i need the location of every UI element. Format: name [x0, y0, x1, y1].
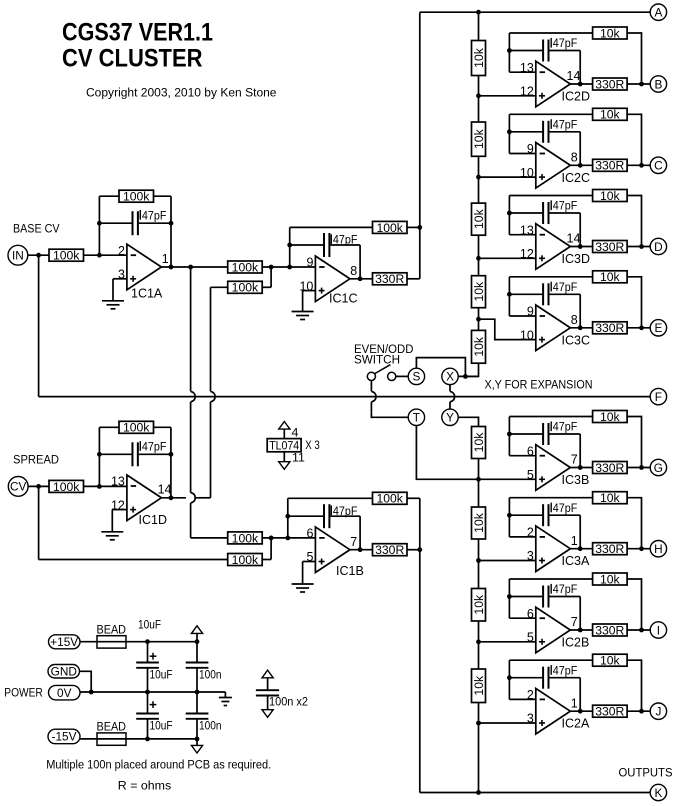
wire IC1B output [350, 549, 373, 551]
junction output node [578, 244, 583, 249]
svg-text:OUTPUTS: OUTPUTS [619, 766, 673, 780]
ground (IC1C pin 10) [292, 312, 314, 320]
svg-text:13: 13 [520, 223, 534, 237]
wire crossover hop [450, 391, 455, 401]
junction output node [578, 163, 583, 168]
power arrow -15V rail [191, 745, 202, 753]
resistor 330R (IC2C output) [593, 159, 628, 173]
resistor 10k (ladder Y-G) [472, 427, 486, 459]
svg-text:IC2D: IC2D [562, 90, 590, 104]
capacitor 47pF (IC3D feedback) [509, 202, 580, 224]
junction ladder tap [476, 175, 481, 180]
junction rail feedback tee [417, 225, 422, 230]
wire to ground [302, 562, 304, 585]
resistor 10k (ladder E-X) [472, 330, 486, 363]
connector G (output G) [650, 459, 666, 475]
wire IC1D output right (hops over IC1A bus) [161, 497, 186, 499]
wire cap down to output [579, 132, 581, 166]
wire CV to R [28, 485, 49, 487]
capacitor 47pF (IC2A feedback) [509, 667, 580, 689]
wire cap down to output [359, 516, 361, 550]
svg-text:7: 7 [350, 535, 357, 549]
capacitor 47pF (IC3C feedback) [509, 283, 580, 305]
wire 330R to output connector [627, 164, 650, 166]
wire [627, 196, 641, 247]
svg-text:9: 9 [306, 256, 313, 270]
svg-text:Y: Y [446, 411, 454, 425]
switch SW1 pole contact [367, 372, 375, 380]
svg-text:IC1D: IC1D [139, 513, 167, 527]
resistor 330R (IC2B output) [593, 623, 628, 637]
junction IC1A output node [169, 265, 174, 270]
wire resistor 2 up to node [270, 538, 272, 560]
wire from spread vertical to resistor [211, 286, 228, 288]
op-amp IC2B [527, 607, 589, 653]
junction +15 rail cap1 [145, 639, 150, 644]
svg-text:10k: 10k [600, 491, 621, 505]
capacitor 47pF (IC2B feedback) [509, 586, 580, 608]
wire 330R to output connector [627, 467, 650, 469]
connector B (output B) [650, 76, 666, 92]
wire 0V to ground symbol [224, 692, 226, 698]
svg-text:100k: 100k [53, 249, 80, 263]
svg-text:IC3D: IC3D [562, 252, 590, 266]
op-amp 1C1A [118, 244, 169, 301]
IC body TL074 [267, 439, 301, 452]
op-amp IC3B [527, 444, 589, 490]
wire 330R to rail [407, 278, 420, 280]
power arrow -V (pin 11) [279, 462, 290, 470]
wire IC2A pin 2 [509, 698, 535, 700]
wire cap down to output [579, 294, 581, 328]
resistor 100k (IC1A input) [49, 249, 84, 263]
resistor 330R (IC2D output) [593, 77, 628, 91]
svg-text:0V: 0V [57, 686, 72, 700]
svg-text:330R: 330R [595, 461, 624, 475]
svg-text:7: 7 [571, 453, 578, 467]
wire feedback left vertical [98, 427, 100, 486]
svg-text:10k: 10k [472, 512, 486, 533]
wire cap down to output [579, 434, 581, 468]
svg-text:X 3: X 3 [305, 438, 320, 452]
svg-text:100k: 100k [232, 553, 259, 567]
capacitor 47pF (IC1B feedback) [288, 504, 360, 528]
junction cap right [169, 221, 174, 226]
junction +15 rail cap2 [195, 639, 200, 644]
ground (IC1A pin 3) [102, 301, 124, 309]
junction ladder bottom [476, 790, 481, 795]
op-amp IC1B [306, 527, 363, 578]
connector I (output I) [650, 622, 666, 638]
wire ladder [478, 76, 480, 123]
junction cap left [287, 243, 292, 248]
junction output node [578, 465, 583, 470]
wire feedback to output rail [407, 497, 420, 499]
wire resistor 2 right lead [262, 559, 271, 561]
wire to ground [302, 291, 304, 312]
wire 330R to rail [407, 549, 420, 551]
wire [267, 696, 269, 710]
svg-text:1C1A: 1C1A [131, 287, 163, 301]
wire ladder [478, 459, 480, 508]
junction output node [578, 709, 583, 714]
wire cap down to output [579, 515, 581, 549]
svg-text:Multiple 100n placed around PC: Multiple 100n placed around PCB as requi… [46, 758, 271, 772]
svg-text:330R: 330R [595, 542, 624, 556]
svg-text:10k: 10k [472, 208, 486, 229]
connector E (output E) [650, 320, 666, 336]
wire feedback right vertical [170, 196, 172, 267]
wire IC2D pin 13 [509, 71, 535, 73]
svg-text:6: 6 [527, 607, 534, 621]
wire IC1C pin 10 to ground [303, 290, 316, 292]
junction ladder top [476, 10, 481, 15]
resistor 10k (ladder B-C) [472, 122, 486, 156]
svg-text:2: 2 [527, 688, 534, 702]
wire cap down to output [359, 245, 361, 279]
svg-text:IN: IN [12, 249, 24, 263]
wire -15V to bead [80, 738, 97, 740]
wire [627, 114, 641, 165]
wire ladder tap to IC3A pin 3 [479, 560, 536, 562]
svg-text:100k: 100k [376, 221, 403, 235]
power arrow (100n x2 top) [262, 670, 273, 678]
resistor 100k (IC1B feedback) [373, 492, 408, 506]
wire IC1C output rail up to top line [419, 12, 421, 279]
junction cap left [507, 292, 512, 297]
wire [458, 417, 478, 426]
resistor 330R (IC3A output) [593, 542, 628, 556]
junction output node [639, 325, 644, 330]
wire [371, 412, 408, 417]
junction output node [639, 709, 644, 714]
wire resistor 2 up to node [270, 267, 272, 287]
capacitor 47pF (IC3A feedback) [509, 504, 580, 526]
resistor 330R (IC3C output) [593, 321, 628, 335]
junction IC1B feedback tap [285, 536, 290, 541]
wire IC3A pin 2 [509, 536, 535, 538]
connector F (output F) [650, 388, 666, 404]
wire to feedback resistor [99, 426, 119, 428]
svg-text:330R: 330R [595, 705, 624, 719]
junction cap left [507, 129, 512, 134]
svg-text:A: A [654, 6, 662, 20]
wire feedback top [509, 113, 592, 115]
wire to ground [111, 510, 113, 532]
resistor 100k (IC1C input from IC1D) [228, 281, 263, 295]
svg-text:2: 2 [118, 244, 125, 258]
svg-text:9: 9 [527, 142, 534, 156]
svg-text:10k: 10k [600, 26, 621, 40]
junction output node [639, 163, 644, 168]
switch SW1 lever [375, 365, 391, 374]
wire feedback top [509, 276, 592, 278]
wire crossover hop [211, 391, 216, 401]
capacitor value label [551, 36, 577, 50]
wire X node to ladder [458, 375, 478, 377]
svg-text:13: 13 [111, 475, 125, 489]
junction output node [639, 244, 644, 249]
connector 0V [49, 685, 81, 700]
resistor 100k (IC1C input from IC1A) [228, 260, 263, 274]
wire [416, 358, 465, 377]
wire IC3D pin 13 [509, 234, 535, 236]
capacitor value label [551, 663, 577, 677]
svg-text:E: E [654, 321, 662, 335]
capacitor 10uF electrolytic (+15 to 0V) [136, 642, 159, 692]
capacitor 47pF (IC2D feedback) [509, 40, 580, 62]
svg-text:BEAD: BEAD [97, 622, 127, 636]
resistor 10k (ladder C-D) [472, 203, 486, 235]
wire cap down to output [579, 51, 581, 85]
svg-text:100n x2: 100n x2 [269, 694, 308, 708]
resistor 10k (ladder D-E) [472, 276, 486, 308]
junction X node [463, 374, 468, 379]
svg-text:10k: 10k [600, 270, 621, 284]
svg-text:10k: 10k [472, 128, 486, 149]
svg-text:2: 2 [527, 526, 534, 540]
ferrite bead (positive rail) [97, 636, 126, 648]
junction IC1D inverting node [97, 484, 102, 489]
wire IC3B pin 6 [509, 455, 535, 457]
svg-text:10k: 10k [472, 47, 486, 68]
wire feedback left vertical [508, 196, 510, 235]
power arrow +V (pin 4) [279, 422, 290, 430]
wire 330R to output connector [627, 327, 650, 329]
svg-text:10k: 10k [600, 572, 621, 586]
ground (IC1D pin 12) [101, 532, 123, 540]
capacitor 47pF (IC1C feedback) [290, 233, 360, 257]
op-amp IC2A [527, 688, 590, 734]
svg-text:IC2A: IC2A [562, 717, 590, 731]
junction ladder tap [476, 558, 481, 563]
wire IC2D output [570, 83, 592, 85]
junction IC1A output tap [188, 265, 193, 270]
resistor 10k (IC3B feedback) [593, 410, 628, 424]
resistor 10k (ladder H-I) [472, 589, 486, 622]
wire to IC1B input resistor 1 [191, 537, 228, 539]
svg-text:47pF: 47pF [333, 504, 358, 518]
wire bottom line from IC1B rail to connector K [420, 792, 650, 794]
resistor 10k (IC2C feedback) [593, 108, 628, 122]
capacitor value label [331, 504, 357, 518]
svg-text:47pF: 47pF [553, 420, 578, 434]
wire throw contact to S [396, 375, 408, 377]
wire cap down to output [579, 213, 581, 247]
wire [283, 452, 285, 462]
svg-text:H: H [654, 542, 663, 556]
op-amp IC3A [527, 526, 590, 572]
wire IC1B pin 5 to ground [303, 561, 316, 563]
wire [627, 33, 641, 84]
svg-text:IC2C: IC2C [562, 171, 590, 185]
wire IC3B output [570, 467, 592, 469]
svg-text:100n: 100n [199, 667, 222, 681]
svg-text:330R: 330R [595, 623, 624, 637]
svg-text:IC1C: IC1C [329, 292, 357, 306]
wire [80, 671, 92, 692]
svg-text:47pF: 47pF [553, 663, 578, 677]
wire [416, 426, 478, 480]
svg-text:T: T [413, 411, 420, 425]
wire feedback top [290, 226, 373, 228]
connector J (output J) [650, 703, 666, 719]
connector IN (base CV input) [8, 245, 28, 265]
capacitor value label [551, 118, 577, 132]
wire [627, 417, 641, 468]
op-amp IC1C [299, 256, 357, 306]
junction IC1C output node [358, 276, 363, 281]
svg-text:100k: 100k [123, 190, 150, 204]
wire IN node down to F line [38, 255, 40, 396]
svg-text:100k: 100k [232, 281, 259, 295]
junction cap left [507, 432, 512, 437]
junction input resistors join [269, 265, 274, 270]
wire feedback left vertical [508, 114, 510, 153]
svg-text:10k: 10k [600, 410, 621, 424]
wire ladder bottom to K line [478, 703, 480, 793]
wire to IC1C pin 9 [262, 266, 315, 268]
svg-text:D: D [654, 240, 663, 254]
wire 0V rail [80, 691, 225, 693]
wire ladder tap to IC2A pin 3 [479, 722, 536, 724]
capacitor 10uF electrolytic (0V to -15) [136, 692, 159, 739]
resistor 10k (IC3C feedback) [593, 270, 628, 284]
svg-text:100k: 100k [376, 492, 403, 506]
junction input resistors join [269, 536, 274, 541]
wire feedback to output rail [407, 226, 420, 228]
svg-text:R = ohms: R = ohms [118, 779, 171, 793]
wire ladder [478, 235, 480, 276]
svg-text:K: K [654, 786, 662, 800]
wire ladder [478, 308, 480, 331]
resistor 10k (ladder A-B) [472, 41, 486, 76]
svg-text:F: F [655, 390, 662, 404]
svg-text:6: 6 [306, 527, 313, 541]
wire IC1D-output bus up to IC1C input (hops over F line) [210, 287, 212, 391]
wire to ground [112, 279, 114, 301]
wire [479, 319, 536, 339]
junction ladder tap [476, 256, 481, 261]
svg-text:47pF: 47pF [553, 280, 578, 294]
resistor 100k (IC1D input) [49, 480, 84, 494]
svg-text:14: 14 [567, 231, 581, 245]
wire IC3C output [570, 327, 592, 329]
wire ladder tap to IC3B pin 5 [479, 478, 536, 480]
capacitor 47pF (IC1D feedback) [99, 442, 170, 466]
svg-text:14: 14 [158, 483, 172, 497]
svg-text:10k: 10k [472, 281, 486, 302]
junction output node [578, 325, 583, 330]
connector K (output K) [650, 784, 666, 800]
wire feedback left vertical [508, 498, 510, 537]
junction ladder tap [476, 477, 481, 482]
svg-text:1: 1 [162, 252, 169, 266]
svg-text:+15V: +15V [50, 635, 78, 649]
wire IC1B output rail down to bottom line [419, 498, 421, 792]
resistor 100k (IC1A feedback) [119, 190, 154, 204]
connector D (output D) [650, 238, 666, 254]
junction cap left [507, 48, 512, 53]
svg-text:47pF: 47pF [553, 501, 578, 515]
resistor 100k (IC1B input from CV) [228, 553, 263, 567]
resistor 330R (IC3B output) [593, 461, 628, 475]
svg-text:-15V: -15V [52, 730, 77, 744]
wire IN to R [28, 254, 49, 256]
wire ladder tap to IC3D pin 12 [479, 257, 536, 259]
svg-text:10uF: 10uF [138, 618, 161, 632]
connector H (output H) [650, 541, 666, 557]
wire IC1A pin 3 to ground [113, 278, 127, 280]
junction output node [578, 546, 583, 551]
svg-text:330R: 330R [595, 77, 624, 91]
capacitor 47pF (IC3B feedback) [509, 423, 580, 445]
wire top line from IC1C rail to connector A [420, 11, 650, 13]
wire IC3D output [570, 246, 592, 248]
wire feedback top [509, 497, 592, 499]
capacitor value label [551, 582, 577, 596]
wire feedback left vertical [508, 417, 510, 456]
resistor 330R (IC1B output) [373, 543, 408, 557]
op-amp IC3C [520, 305, 590, 351]
svg-text:8: 8 [350, 264, 357, 278]
svg-text:330R: 330R [595, 240, 624, 254]
capacitor 47pF (IC2C feedback) [509, 121, 580, 143]
wire feedback top [288, 497, 373, 499]
wire to IC1B pin 6 [262, 537, 315, 539]
wire IC2C output [570, 164, 592, 166]
resistor 330R (IC3D output) [593, 240, 628, 254]
wire [267, 678, 269, 690]
resistor 10k (IC3D feedback) [593, 189, 628, 203]
wire R to IC1D pin 13 [84, 485, 127, 487]
wire [627, 277, 641, 328]
wire feedback left vertical [508, 579, 510, 618]
svg-text:10k: 10k [472, 594, 486, 615]
wire IC2A output [570, 710, 592, 712]
junction IC1C feedback tap [287, 265, 292, 270]
switch SW1 throw contact [388, 372, 396, 380]
svg-text:100n: 100n [199, 718, 222, 732]
svg-text:Copyright 2003, 2010 by Ken St: Copyright 2003, 2010 by Ken Stone [86, 86, 277, 100]
wire [283, 429, 285, 439]
svg-text:1: 1 [571, 696, 578, 710]
svg-text:SWITCH: SWITCH [354, 353, 400, 367]
junction output node [578, 82, 583, 87]
op-amp IC2D [520, 61, 590, 107]
junction -15 rail cap1 [145, 737, 150, 742]
wire IC3C pin 9 [509, 315, 535, 317]
wire IC1B feedback left vertical [287, 498, 289, 538]
wire ladder [478, 539, 480, 589]
svg-text:IC3C: IC3C [562, 333, 590, 347]
junction 0V rail cap1 [145, 690, 150, 695]
wire +15V to bead [80, 641, 97, 643]
svg-text:8: 8 [571, 151, 578, 165]
svg-text:10k: 10k [600, 654, 621, 668]
wire [627, 579, 641, 630]
connector C (output C) [650, 157, 666, 173]
wire feedback resistor right [154, 426, 171, 428]
junction cap left [507, 675, 512, 680]
svg-text:14: 14 [567, 69, 581, 83]
svg-text:10k: 10k [600, 189, 621, 203]
svg-text:CV CLUSTER: CV CLUSTER [62, 45, 203, 73]
capacitor 47pF (IC1A feedback) [99, 211, 171, 235]
junction cap left [285, 514, 290, 519]
svg-text:47pF: 47pF [553, 118, 578, 132]
svg-text:330R: 330R [595, 159, 624, 173]
